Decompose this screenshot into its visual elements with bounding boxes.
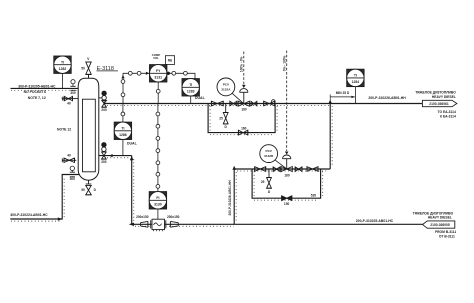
svg-text:160: 160 [241,108,247,112]
pipe 200-P-310225 bottom line [132,223,423,225]
drain valve 25 D manifold A [223,104,228,124]
svg-text:200: 200 [101,160,107,164]
svg-text:300-P-310205-AB01-HC: 300-P-310205-AB01-HC [18,84,56,88]
PCV 3132A bubble [217,78,235,96]
gate valve A4 [264,101,275,106]
gate valve B1 [255,167,266,172]
vessel E-3118 shell [78,78,99,180]
control valve PCV-3132A body [238,89,249,107]
svg-text:520: 520 [311,194,317,198]
dimension MIN 25 D [330,94,355,103]
svg-text:DUAL: DUAL [195,96,206,100]
pipe 200 main outlet line [104,103,422,105]
svg-text:V: V [87,57,90,61]
svg-text:1282: 1282 [59,67,67,71]
vent valve 50 V [86,62,92,75]
svg-text:3130: 3130 [154,203,162,207]
bypass valve A [238,130,247,135]
svg-text:NO POCKETS: NO POCKETS [24,90,47,94]
svg-text:50: 50 [81,66,85,70]
PCV 3132B pilot line [275,160,286,169]
tracing bypass A [210,106,277,135]
fitting 300 on bottom left line [70,166,75,177]
svg-text:2100-036061: 2100-036061 [429,102,449,106]
svg-text:3132B: 3132B [264,154,274,158]
svg-text:40: 40 [67,102,71,106]
svg-text:1283: 1283 [187,90,195,94]
svg-text:FY: FY [156,69,161,73]
valve V 40 upper left [63,96,78,100]
bypass valve B closed [282,196,292,201]
signal line 0%-100% [286,51,288,152]
svg-text:40: 40 [67,153,71,157]
instrument FI 3130 [149,192,166,220]
svg-text:FI: FI [156,196,159,200]
tracing bypass B [254,172,323,201]
svg-text:160: 160 [284,173,290,177]
svg-text:200: 200 [101,108,107,112]
svg-text:К EA-3114: К EA-3114 [440,114,456,118]
manifold B bypass loop [252,169,321,198]
E-3118 underline [97,70,118,72]
svg-text:200-P-310225-AB01-HC: 200-P-310225-AB01-HC [356,219,394,223]
gate valve B4 [307,167,318,172]
signal arrow to actuator B [285,152,289,155]
svg-text:TI: TI [121,127,124,131]
pipe riser manifold B inlet [234,169,330,224]
PCV 3132B bubble [260,145,278,163]
svg-text:D: D [94,188,97,192]
tracing feed line [11,89,77,91]
pipe 300-P-310224 bottom left [10,175,79,220]
svg-text:1286: 1286 [119,133,127,137]
pipe riser manifold B outlet [329,104,331,170]
control valve PCV-3132B body [281,155,292,172]
svg-text:D: D [225,125,228,129]
signal arrow to actuator A [242,85,246,88]
instrument TI 1282 [54,56,71,88]
svg-text:D: D [268,190,271,194]
svg-text:50: 50 [81,188,85,192]
svg-text:HEAVY DIESEL: HEAVY DIESEL [432,95,456,99]
tracing outlet riser [331,106,333,167]
svg-text:NE: NE [168,59,172,63]
instrument FY 3131 [121,71,195,103]
arrow right at corner [58,217,62,220]
arrow up riser B [232,166,236,170]
pipe 300-P-310205 feed line [11,87,79,89]
svg-text:300: 300 [70,177,76,181]
arrow up riser [130,156,134,160]
svg-text:200x150: 200x150 [136,215,149,219]
gate valve B2 [273,167,280,172]
svg-text:TI: TI [61,60,64,64]
svg-text:3132A: 3132A [221,88,231,92]
instrument TI 1283 [182,79,199,104]
drain nozzle [86,180,92,195]
svg-text:VOL: VOL [153,56,159,60]
svg-text:1284: 1284 [352,80,360,84]
svg-text:25: 25 [261,180,265,184]
instrument TI 1284 [347,69,364,103]
tap circle on main line [271,100,275,104]
tracing riser B and line B [236,171,328,222]
pipe heater inlet line [99,155,132,157]
svg-text:PCV: PCV [266,149,273,153]
tracing inlet line [107,157,130,159]
svg-text:200-P-310226-AB01-HH: 200-P-310226-AB01-HH [368,96,406,100]
svg-text:200x150: 200x150 [167,215,180,219]
svg-text:150: 150 [284,202,290,206]
nozzle assembly upper right 200 [99,91,107,107]
capillary line to FI 3130 [156,104,160,192]
tracing bottom line [135,225,234,227]
fitting 300 on feed line [70,80,75,91]
manifold A bypass loop [208,104,275,133]
svg-text:25: 25 [219,117,223,121]
drain valve 25 D manifold B [267,169,272,188]
svg-text:TI: TI [354,74,357,78]
svg-text:TO EA-3114: TO EA-3114 [438,110,456,114]
svg-text:100% - 0%: 100% - 0% [240,56,244,72]
vent nozzle stub [88,75,90,79]
heater bundle inner tube [82,99,95,172]
off-page connector FROM B-3111 [423,221,455,228]
off-page connector TO EA-3114 [422,100,457,106]
arrow up outlet riser [328,100,332,104]
gate valve B3 [295,167,302,172]
gate valve A2 [230,101,237,106]
svg-text:ТЯЖЕЛОЕ ДИЗТОПЛИВО: ТЯЖЕЛОЕ ДИЗТОПЛИВО [415,90,456,94]
svg-text:TI: TI [189,83,192,87]
svg-text:200-P-310228-AB01-HH: 200-P-310228-AB01-HH [228,180,232,216]
svg-text:160: 160 [241,126,247,130]
nozzle assembly lower right 200 [101,143,106,160]
signal line 100%-0% [243,52,245,85]
PCV 3132A pilot line [232,93,244,103]
tracing riser [133,159,135,222]
tracing main line [107,105,331,107]
svg-text:MIN 25 D: MIN 25 D [336,91,350,95]
flow element with reducers [141,219,179,231]
gate valve A3 [251,101,257,106]
arrow into vessel [109,154,113,157]
svg-text:300-P-310224-AB01-HC: 300-P-310224-AB01-HC [10,213,48,217]
svg-text:DUAL: DUAL [127,142,138,146]
svg-text:NOTE 7, 12: NOTE 7, 12 [28,96,46,100]
NE box [165,56,174,65]
svg-text:300: 300 [70,91,76,95]
tracing bottom left riser [11,177,64,221]
svg-text:0% - 100%: 0% - 100% [282,55,286,71]
instrument TI 1286 [114,104,131,156]
svg-text:HEAVY DIESEL: HEAVY DIESEL [428,215,452,219]
valve 40 lower left [62,158,76,162]
svg-text:ОТ B-3111: ОТ B-3111 [439,234,455,238]
arrow left at corner [129,223,134,226]
svg-text:NOTE 12: NOTE 12 [57,128,71,132]
riser pipe to inlet [131,156,133,225]
svg-text:PCV: PCV [223,82,230,86]
svg-text:2100-036005: 2100-036005 [430,223,450,227]
svg-text:3131: 3131 [154,76,162,80]
gate valve A1 [211,101,223,106]
